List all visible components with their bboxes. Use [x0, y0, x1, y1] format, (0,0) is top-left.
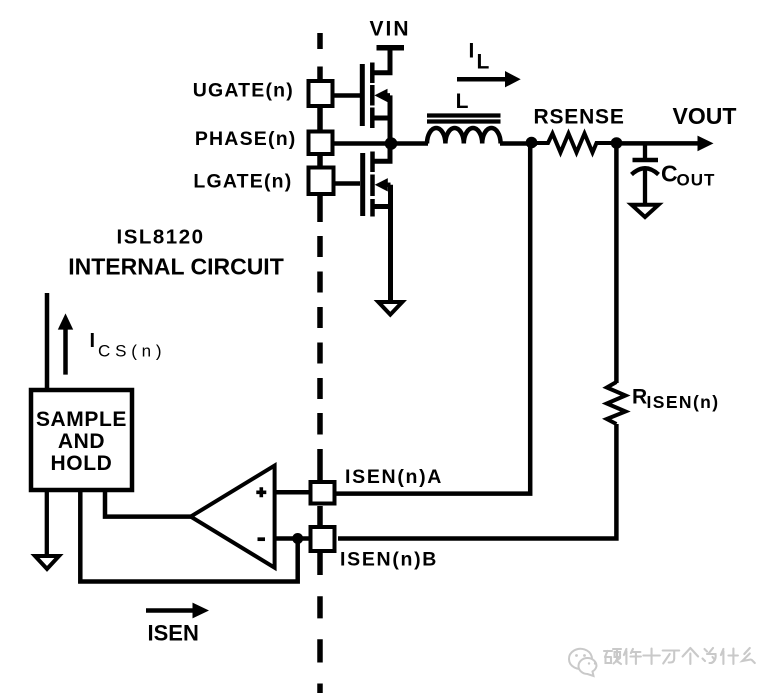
capacitor COUT: [643, 144, 647, 159]
pin box UGATE(n): [309, 81, 333, 106]
wire ground below sample and hold: [45, 490, 49, 556]
transistor upper MOSFET body arrow: [374, 89, 387, 102]
svg-text:SAMPLE: SAMPLE: [36, 408, 127, 431]
svg-text:L: L: [456, 90, 469, 113]
svg-text:C: C: [661, 161, 678, 187]
transistor lower MOSFET gate bar: [360, 153, 365, 216]
wire VIN stem to upper FET drain: [372, 48, 390, 73]
wire lower MOSFET source lead to ground: [372, 185, 391, 303]
VIN supply bar: [377, 45, 405, 51]
svg-text:INTERNAL CIRCUIT: INTERNAL CIRCUIT: [68, 254, 284, 280]
sample and hold block U1: [31, 390, 132, 490]
pin box LGATE(n): [309, 168, 334, 195]
svg-text:OUT: OUT: [677, 171, 716, 190]
svg-text:ISEN: ISEN: [148, 621, 199, 646]
svg-text:LGATE(n): LGATE(n): [193, 171, 292, 193]
watermark text: [604, 648, 755, 664]
node inductor-RSENSE junction dot: [526, 137, 538, 149]
pin box ISEN(n)A: [311, 482, 335, 504]
wire feedback minus node to sample and hold: [80, 490, 297, 582]
wire op-amp output to sample and hold: [105, 490, 191, 517]
wire PHASE pin to inductor: [334, 141, 428, 146]
svg-text:VOUT: VOUT: [673, 103, 737, 129]
svg-text:ISL8120: ISL8120: [117, 226, 205, 249]
svg-text:VIN: VIN: [369, 18, 410, 41]
wire VOUT with arrow: [617, 141, 701, 146]
pin box ISEN(n)B: [311, 527, 335, 551]
svg-text:PHASE(n): PHASE(n): [195, 128, 297, 150]
pin box PHASE(n): [309, 132, 333, 155]
svg-text:L: L: [477, 51, 490, 74]
wire node1 down to ISEN(n)A: [336, 144, 530, 494]
ground arrow below COUT: [632, 205, 659, 217]
svg-text:I: I: [469, 40, 475, 63]
wire RISEN down to ISEN(n)B: [338, 424, 616, 539]
watermark logo: [569, 649, 597, 676]
wire ICS output up from sample-hold box: [45, 293, 50, 392]
node minus input junction dot: [292, 533, 303, 544]
wire lower MOSFET body to source: [385, 183, 391, 188]
transistor upper MOSFET gate bar: [360, 64, 365, 126]
svg-text:AND: AND: [58, 430, 105, 453]
op-amp U2 comparator: [191, 466, 275, 568]
transistor lower MOSFET channel segments: [370, 152, 375, 217]
transistor upper MOSFET channel segments: [370, 63, 375, 129]
node RSENSE-output junction dot: [611, 137, 623, 149]
transistor lower MOSFET body arrow: [375, 178, 388, 191]
resistor RISEN(n): [607, 382, 626, 424]
node PHASE junction dot: [385, 137, 398, 150]
wire inductor to RSENSE node: [500, 141, 537, 146]
wire upper MOSFET body to source: [385, 93, 390, 98]
arrow ICS current direction: [63, 329, 68, 375]
op-amp plus sign: [256, 487, 266, 497]
svg-text:UGATE(n): UGATE(n): [193, 80, 294, 102]
svg-text:I: I: [90, 330, 96, 352]
wire node2 down to RISEN: [614, 143, 619, 383]
op-amp minus sign: [258, 537, 266, 541]
wire minus input to ISEN(n)B pin: [275, 536, 310, 541]
arrow IL current direction: [457, 77, 507, 82]
svg-text:ISEN(n)A: ISEN(n)A: [345, 466, 443, 488]
arrow ISEN direction: [146, 608, 195, 613]
svg-text:RSENSE: RSENSE: [534, 106, 625, 129]
dashed internal/external boundary line: [317, 33, 323, 693]
inductor L winding: [427, 128, 501, 144]
wire LGATE pin to lower gate: [334, 181, 360, 186]
svg-text:CS(n): CS(n): [98, 342, 166, 361]
wire plus input to ISEN(n)A pin: [275, 490, 309, 495]
svg-text:HOLD: HOLD: [51, 452, 113, 475]
transistor lower MOSFET drain lead: [372, 144, 390, 162]
svg-text:R: R: [632, 386, 647, 409]
wire upper MOSFET source lead: [372, 95, 390, 143]
ground arrow below sample and hold: [35, 556, 59, 569]
inductor core bars: [427, 116, 501, 122]
svg-text:ISEN(n)B: ISEN(n)B: [340, 549, 438, 571]
resistor RSENSE: [532, 134, 617, 153]
ground arrow below lower MOSFET: [378, 302, 402, 315]
svg-text:ISEN(n): ISEN(n): [647, 392, 720, 412]
wire UGATE pin to upper gate: [334, 93, 360, 98]
